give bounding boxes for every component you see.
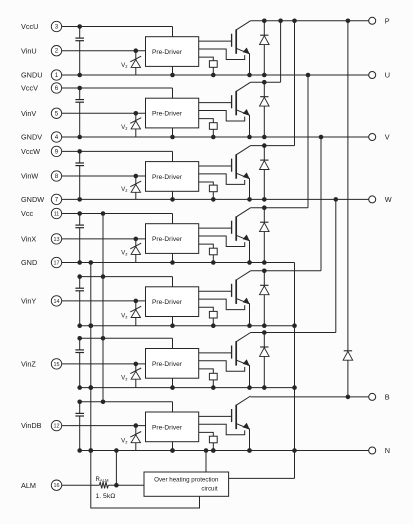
- svg-text:VinZ: VinZ: [21, 360, 36, 369]
- svg-text:V: V: [385, 133, 390, 142]
- svg-text:16: 16: [54, 483, 60, 489]
- svg-text:Vz: Vz: [121, 374, 128, 381]
- svg-text:VinDB: VinDB: [21, 421, 42, 430]
- svg-text:VccW: VccW: [21, 147, 40, 156]
- svg-text:B: B: [385, 393, 390, 402]
- svg-text:1: 1: [55, 72, 59, 79]
- svg-text:VccU: VccU: [21, 22, 38, 31]
- svg-text:VccV: VccV: [21, 84, 38, 93]
- svg-text:RALM: RALM: [96, 477, 109, 483]
- svg-text:GNDU: GNDU: [21, 71, 43, 80]
- svg-text:Pre-Driver: Pre-Driver: [152, 174, 183, 181]
- svg-text:VinV: VinV: [21, 109, 36, 118]
- svg-text:Pre-Driver: Pre-Driver: [152, 236, 183, 243]
- svg-text:2: 2: [55, 48, 59, 55]
- svg-text:6: 6: [55, 85, 59, 92]
- svg-text:5: 5: [55, 110, 59, 117]
- svg-text:Vz: Vz: [121, 62, 128, 69]
- svg-text:Vz: Vz: [121, 124, 128, 131]
- svg-text:GND: GND: [21, 258, 37, 267]
- svg-text:Pre-Driver: Pre-Driver: [152, 49, 183, 56]
- svg-text:Vz: Vz: [121, 313, 128, 320]
- svg-text:Pre-Driver: Pre-Driver: [152, 424, 183, 431]
- svg-text:N: N: [385, 446, 390, 455]
- svg-text:Pre-Driver: Pre-Driver: [152, 299, 183, 306]
- svg-text:14: 14: [54, 299, 60, 305]
- svg-text:7: 7: [55, 196, 59, 203]
- svg-text:9: 9: [55, 148, 59, 155]
- svg-text:VinY: VinY: [21, 297, 36, 306]
- svg-text:Pre-Driver: Pre-Driver: [152, 361, 183, 368]
- svg-text:8: 8: [55, 173, 59, 180]
- svg-text:Vz: Vz: [121, 186, 128, 193]
- svg-text:11: 11: [54, 212, 60, 218]
- svg-text:1. 5kΩ: 1. 5kΩ: [96, 493, 116, 500]
- svg-text:Vz: Vz: [121, 249, 128, 256]
- svg-text:P: P: [385, 16, 390, 25]
- svg-text:Vcc: Vcc: [21, 209, 34, 218]
- svg-text:Pre-Driver: Pre-Driver: [152, 111, 183, 118]
- svg-text:3: 3: [55, 24, 59, 31]
- svg-text:ALM: ALM: [21, 481, 36, 490]
- svg-text:13: 13: [54, 237, 60, 243]
- svg-text:U: U: [385, 71, 390, 80]
- svg-text:GNDW: GNDW: [21, 195, 44, 204]
- svg-text:VinX: VinX: [21, 235, 36, 244]
- svg-text:12: 12: [54, 424, 60, 430]
- svg-text:GNDV: GNDV: [21, 133, 42, 142]
- svg-text:Over heating protection: Over heating protection: [154, 477, 219, 484]
- svg-text:Vz: Vz: [121, 437, 128, 444]
- svg-text:4: 4: [55, 134, 59, 141]
- svg-text:17: 17: [54, 261, 60, 267]
- svg-text:circuit: circuit: [201, 486, 217, 493]
- svg-text:VinU: VinU: [21, 46, 37, 55]
- svg-text:VinW: VinW: [21, 172, 38, 181]
- svg-text:15: 15: [54, 362, 60, 368]
- svg-text:W: W: [385, 195, 392, 204]
